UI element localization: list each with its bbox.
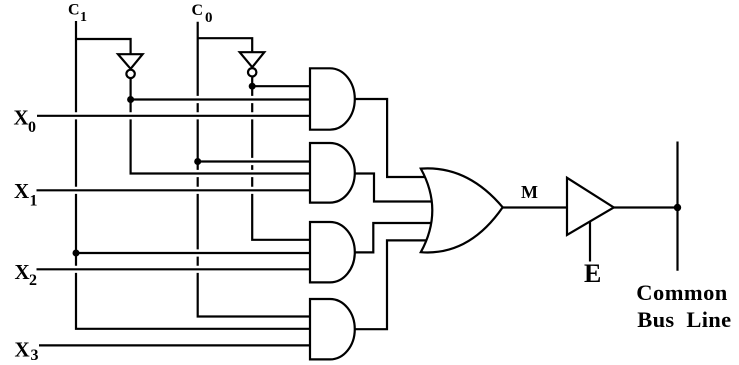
wire buffer output to bus — [614, 206, 678, 208]
svg-text:X: X — [14, 105, 29, 129]
svg-text:1: 1 — [80, 10, 87, 25]
wire AND3 output to OR input 3 — [354, 223, 432, 252]
wire C0' branch to AND1 top input — [252, 85, 311, 87]
node C0 label — [192, 2, 213, 26]
inverter 1 bubble — [126, 70, 134, 78]
wire OR output to buffer (node M) — [503, 206, 567, 208]
wire C1 branch to AND3 middle input — [76, 252, 311, 254]
svg-text:C: C — [192, 2, 204, 19]
junction dot on C0 at AND2 branch — [194, 158, 201, 165]
inverter 2 bubble — [248, 68, 256, 76]
wire common bus vertical line — [676, 142, 678, 271]
svg-text:X: X — [15, 260, 30, 284]
wire C1 vertical down to AND4 middle input (breaks at X0,X1,X2 crossings) — [76, 21, 311, 329]
AND gate 4 — [310, 299, 355, 359]
svg-text:1: 1 — [30, 193, 38, 210]
svg-text:0: 0 — [205, 10, 213, 26]
svg-text:X: X — [15, 337, 30, 361]
wire enable E stub — [589, 221, 591, 262]
svg-text:0: 0 — [28, 119, 36, 136]
wire AND2 output to OR input 2 — [354, 174, 433, 202]
inverter 1 (NOT gate on C1) — [118, 54, 143, 69]
AND gate 1 — [310, 68, 355, 129]
wire C1 branch to inverter 1 — [76, 39, 131, 54]
wire AND4 output to OR input 4 — [354, 240, 426, 329]
wire X2 to AND3 bottom input — [37, 268, 312, 270]
AND gate 3 — [310, 222, 355, 282]
wire C0' vertical to AND3 top input (breaks at crossings) — [252, 77, 311, 239]
AND gate 2 — [310, 143, 355, 203]
node X1 label — [14, 179, 38, 210]
junction dot on C0' at AND1 branch — [249, 83, 256, 90]
svg-text:C: C — [68, 2, 80, 19]
svg-text:M: M — [521, 182, 538, 202]
wire C0 vertical down to AND4 top input (breaks at crossings) — [198, 22, 311, 317]
svg-text:2: 2 — [29, 272, 37, 289]
wire C0 branch to inverter 2 — [198, 38, 253, 52]
tri-state buffer — [567, 178, 614, 235]
wire X0 to AND1 bottom input — [37, 115, 311, 117]
wire X3 to AND4 bottom input — [39, 344, 311, 346]
junction dot on C1' at AND1 branch — [127, 96, 134, 103]
svg-text:X: X — [14, 179, 29, 203]
wire C1' branch to AND1 middle input — [131, 98, 311, 100]
OR gate — [421, 168, 503, 252]
svg-text:Bus Line: Bus Line — [637, 307, 731, 332]
node X0 label — [14, 105, 37, 136]
wire AND1 output to OR input 1 — [354, 99, 426, 177]
node C1 label — [68, 2, 87, 26]
node X2 label — [15, 260, 38, 289]
svg-text:Common: Common — [636, 280, 727, 305]
wire C1' vertical to AND2 middle input (break at X0 crossing) — [131, 79, 311, 174]
node X3 label — [15, 337, 39, 364]
wire C0 branch to AND2 top input — [198, 160, 311, 162]
junction dot on C1 at AND3 branch — [73, 250, 80, 257]
svg-text:3: 3 — [31, 347, 39, 364]
wire X1 to AND2 bottom input — [37, 189, 312, 191]
svg-text:E: E — [584, 259, 601, 288]
inverter 2 (NOT gate on C0) — [240, 52, 265, 67]
node Common Bus Line label — [636, 280, 731, 332]
junction dot on bus — [674, 204, 681, 211]
